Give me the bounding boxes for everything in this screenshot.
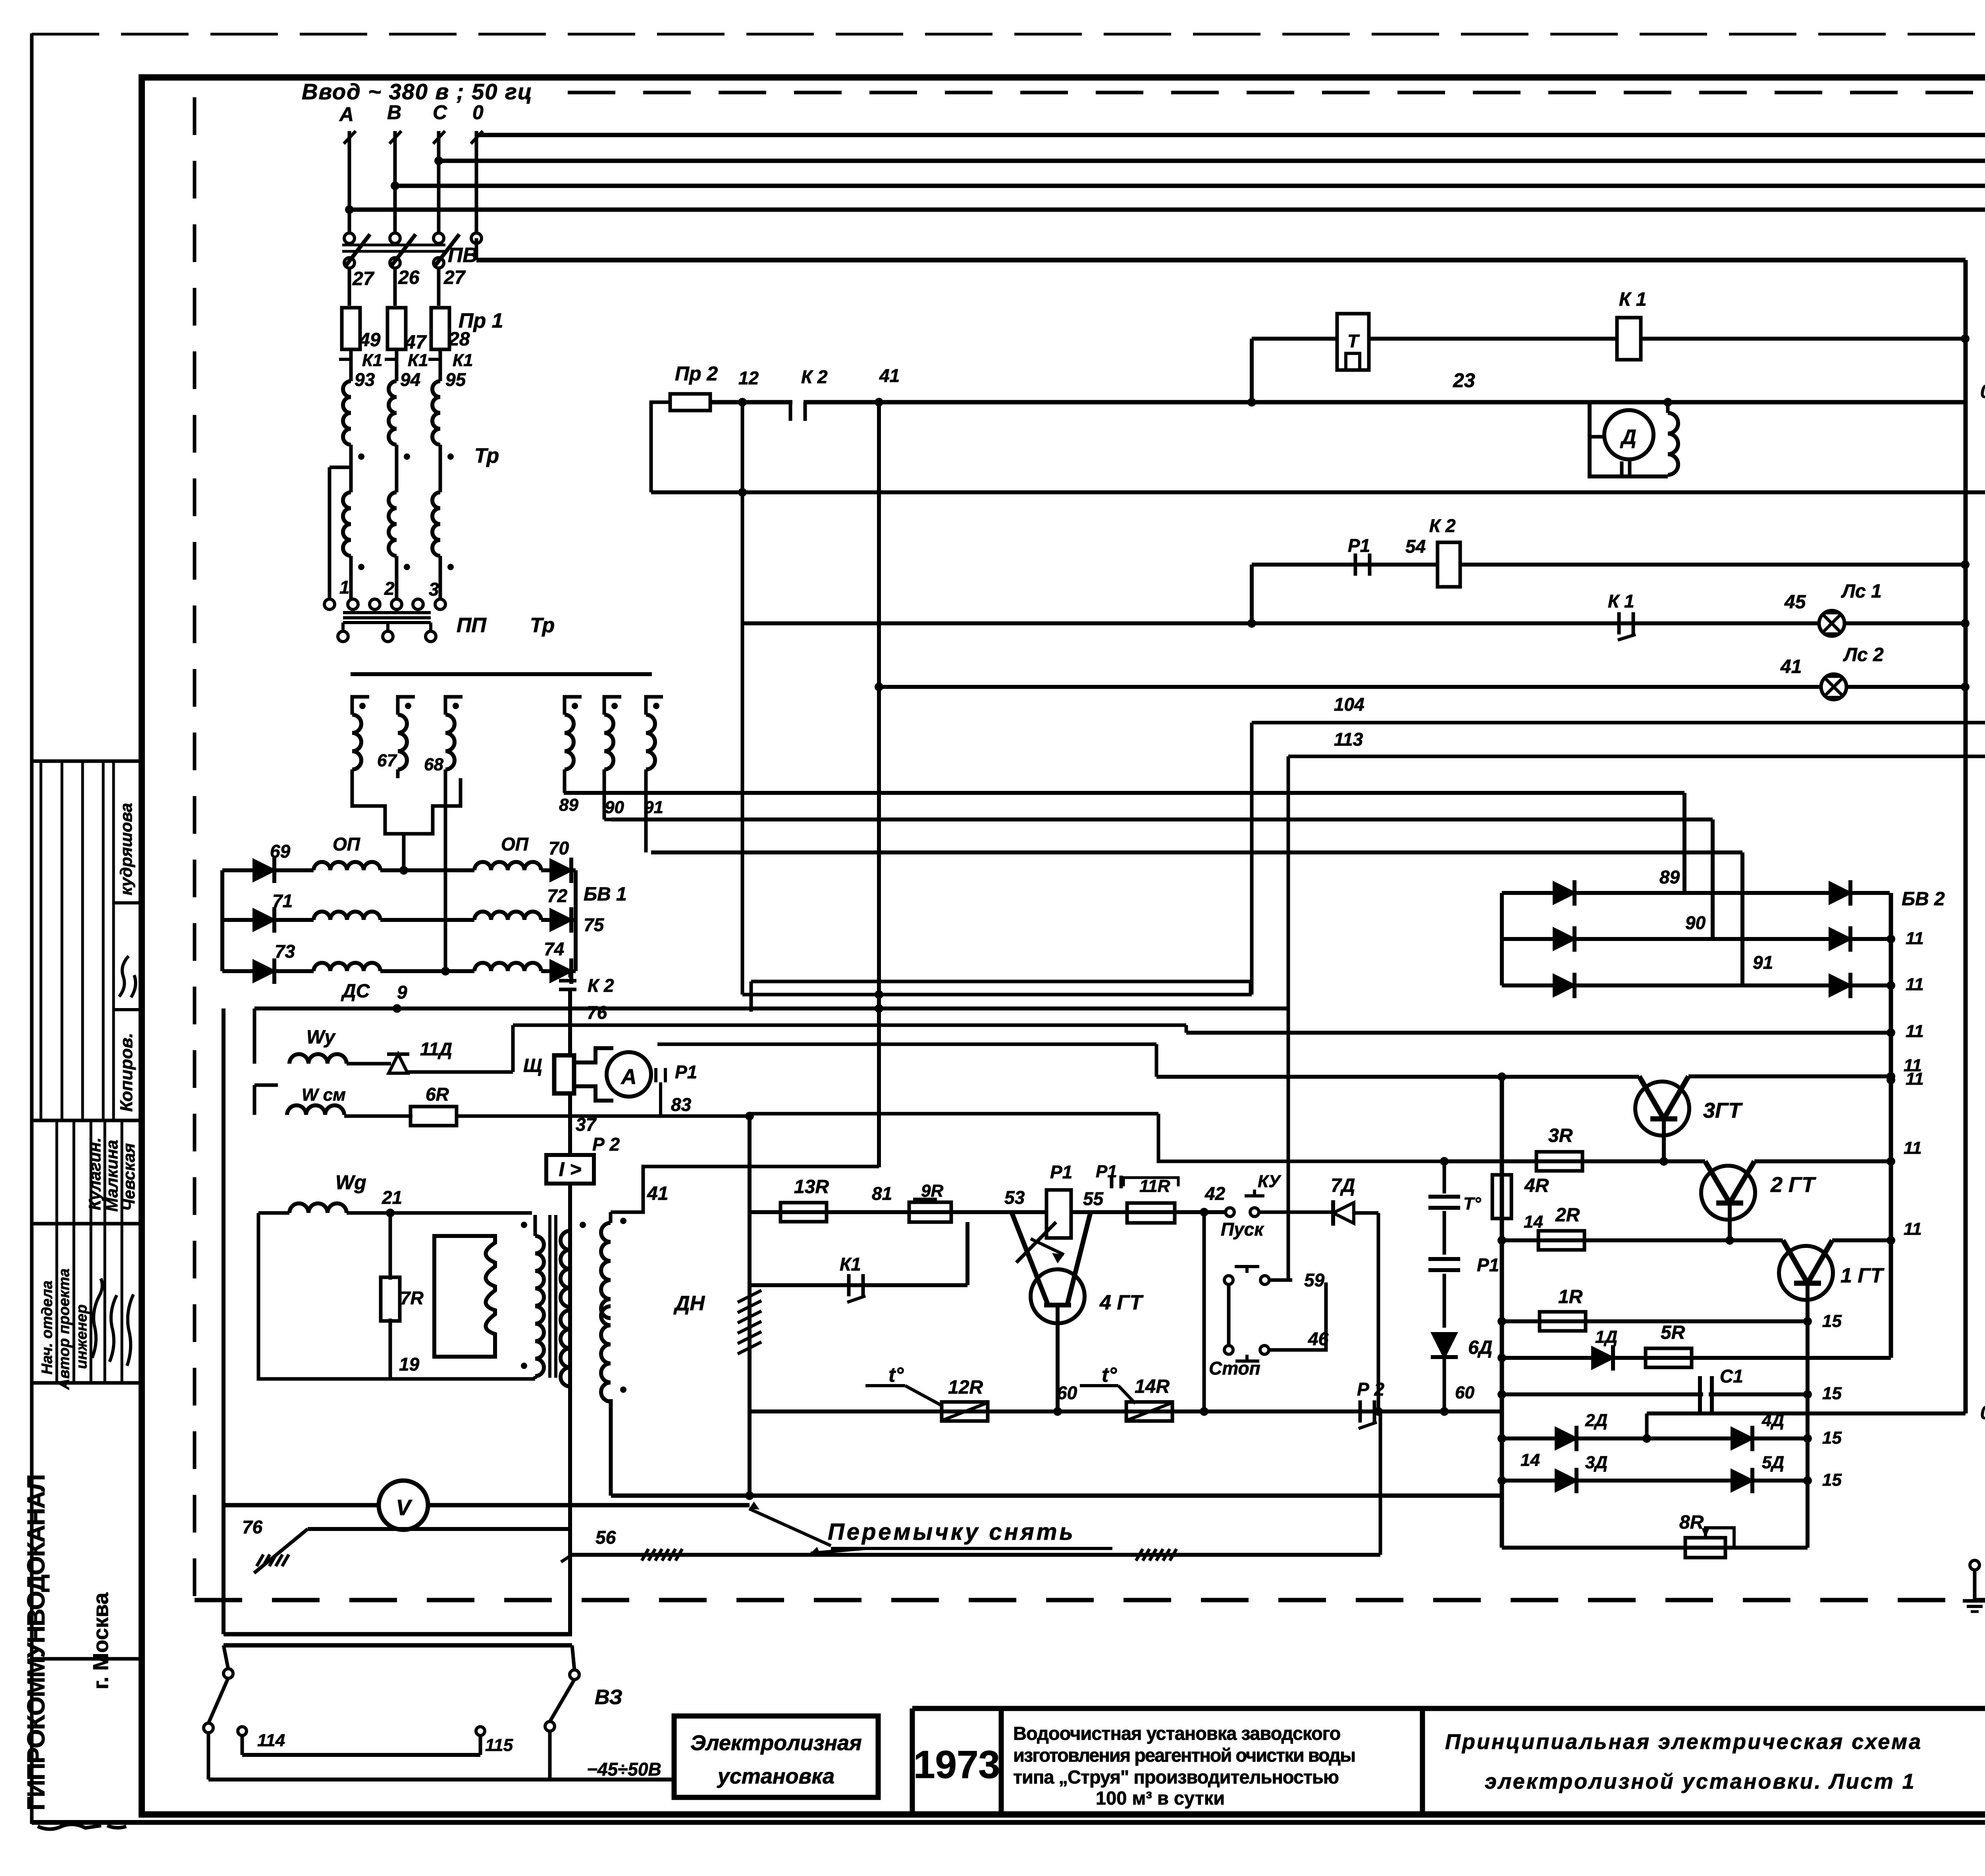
svg-text:Принципиальная электрическая: Принципиальная электрическая схема	[1445, 1730, 1922, 1754]
svg-text:74: 74	[544, 939, 564, 959]
svg-text:11: 11	[1906, 929, 1924, 948]
svg-text:26: 26	[398, 267, 420, 288]
svg-text:Нач. отдела: Нач. отдела	[39, 1280, 56, 1375]
svg-text:100 м³ в сутки: 100 м³ в сутки	[1096, 1787, 1225, 1809]
svg-text:4R: 4R	[1524, 1175, 1549, 1196]
svg-text:115: 115	[485, 1735, 513, 1755]
svg-text:114: 114	[257, 1731, 285, 1750]
svg-text:3: 3	[429, 579, 439, 600]
svg-text:14R: 14R	[1135, 1376, 1170, 1397]
svg-text:Т°: Т°	[1463, 1194, 1481, 1213]
svg-text:ГИПРОКОММУНВОДОКАНАЛ: ГИПРОКОММУНВОДОКАНАЛ	[23, 1475, 50, 1810]
svg-text:59: 59	[1304, 1270, 1325, 1290]
svg-text:45: 45	[1784, 592, 1806, 613]
svg-text:73: 73	[275, 941, 295, 962]
svg-text:2: 2	[384, 578, 395, 599]
svg-text:Копиров.: Копиров.	[117, 1033, 136, 1112]
svg-text:I >: I >	[559, 1158, 582, 1180]
svg-text:89: 89	[1659, 867, 1680, 887]
svg-text:27: 27	[443, 267, 466, 288]
svg-text:81: 81	[872, 1183, 892, 1204]
svg-text:1: 1	[339, 577, 350, 598]
svg-text:Стоп: Стоп	[1209, 1358, 1260, 1379]
svg-text:2Д: 2Д	[1585, 1411, 1607, 1430]
svg-text:ОП: ОП	[333, 834, 360, 854]
svg-text:изготовления реагентной очистк: изготовления реагентной очистки воды	[1013, 1745, 1355, 1766]
svg-text:55: 55	[1083, 1188, 1104, 1209]
svg-text:72: 72	[547, 885, 568, 906]
svg-text:91: 91	[644, 798, 663, 817]
svg-text:Электролизная: Электролизная	[690, 1731, 862, 1755]
svg-text:11: 11	[1904, 1138, 1922, 1158]
svg-text:14: 14	[1521, 1450, 1540, 1470]
svg-text:К1: К1	[453, 351, 473, 370]
svg-text:76: 76	[587, 1002, 607, 1023]
svg-text:1973: 1973	[913, 1743, 1000, 1786]
svg-text:11: 11	[1906, 1022, 1924, 1041]
svg-text:11: 11	[1906, 975, 1924, 994]
svg-text:11R: 11R	[1139, 1176, 1170, 1196]
svg-text:11: 11	[1904, 1056, 1922, 1075]
svg-text:ДС: ДС	[341, 981, 370, 1002]
svg-text:Тр: Тр	[474, 444, 499, 467]
svg-text:Р1: Р1	[1096, 1162, 1117, 1181]
svg-text:W см: W см	[302, 1085, 346, 1105]
svg-text:70: 70	[549, 838, 569, 858]
svg-text:41: 41	[879, 365, 900, 386]
svg-text:t°: t°	[888, 1363, 904, 1386]
svg-text:К 2: К 2	[801, 366, 828, 387]
svg-text:28: 28	[448, 329, 470, 350]
svg-text:Р 2: Р 2	[1357, 1379, 1384, 1400]
svg-text:ПВ: ПВ	[448, 244, 478, 267]
svg-text:Водоочистная установка заводск: Водоочистная установка заводского	[1013, 1723, 1340, 1744]
svg-text:21: 21	[382, 1187, 402, 1208]
svg-text:Р1: Р1	[675, 1062, 697, 1082]
svg-text:Д: Д	[1620, 426, 1636, 449]
svg-text:11Д: 11Д	[420, 1039, 452, 1059]
svg-text:К 2: К 2	[588, 975, 614, 996]
svg-text:90: 90	[1685, 912, 1706, 933]
svg-text:68: 68	[424, 755, 443, 774]
svg-text:Щ: Щ	[523, 1055, 542, 1076]
svg-text:0: 0	[1980, 1402, 1985, 1423]
svg-text:54: 54	[1405, 536, 1426, 557]
svg-text:13R: 13R	[794, 1176, 829, 1197]
svg-text:42: 42	[1204, 1183, 1226, 1204]
svg-text:60: 60	[1455, 1383, 1474, 1402]
svg-text:Wу: Wу	[306, 1027, 336, 1048]
svg-text:Р1: Р1	[1477, 1255, 1499, 1275]
svg-text:27: 27	[352, 268, 375, 289]
svg-text:56: 56	[595, 1527, 616, 1548]
svg-text:ОП: ОП	[501, 834, 529, 854]
svg-text:Чевская: Чевская	[119, 1143, 138, 1211]
svg-text:Ввод ~ 380 в ; 50 гц: Ввод ~ 380 в ; 50 гц	[302, 79, 533, 104]
svg-text:С1: С1	[1720, 1366, 1743, 1386]
svg-text:V: V	[396, 1495, 412, 1520]
svg-text:кудряшова: кудряшова	[117, 803, 135, 895]
svg-text:53: 53	[1004, 1187, 1025, 1208]
svg-text:ДН: ДН	[673, 1292, 705, 1315]
svg-text:2R: 2R	[1555, 1205, 1580, 1226]
svg-text:12: 12	[738, 368, 759, 388]
svg-text:Кулагин.: Кулагин.	[85, 1138, 104, 1210]
svg-text:104: 104	[1334, 694, 1364, 715]
svg-text:Р 2: Р 2	[592, 1134, 620, 1155]
svg-text:Тр: Тр	[530, 614, 555, 637]
svg-text:Пуск: Пуск	[1221, 1219, 1264, 1240]
svg-text:47: 47	[405, 332, 427, 353]
svg-text:−45÷50В: −45÷50В	[587, 1759, 661, 1780]
svg-text:К 1: К 1	[1608, 591, 1634, 611]
svg-text:В: В	[387, 101, 401, 123]
svg-text:11: 11	[1904, 1219, 1922, 1239]
svg-text:ВЗ: ВЗ	[595, 1686, 622, 1709]
svg-text:г. Москва: г. Москва	[89, 1592, 113, 1689]
svg-text:37: 37	[576, 1114, 597, 1135]
svg-text:БВ 1: БВ 1	[584, 884, 627, 905]
svg-text:4 ГТ: 4 ГТ	[1099, 1291, 1144, 1314]
svg-text:ПП: ПП	[457, 614, 487, 637]
svg-text:типа „Струя" производительност: типа „Струя" производительностью	[1013, 1766, 1339, 1787]
svg-text:6Д: 6Д	[1468, 1337, 1492, 1358]
svg-text:Малкина: Малкина	[102, 1140, 121, 1212]
svg-text:5Д: 5Д	[1762, 1453, 1784, 1472]
svg-text:Лс 2: Лс 2	[1843, 644, 1884, 665]
svg-text:15: 15	[1822, 1428, 1842, 1448]
svg-text:Перемычку снять: Перемычку снять	[828, 1519, 1075, 1545]
svg-text:КУ: КУ	[1258, 1172, 1282, 1191]
svg-text:А: А	[339, 103, 354, 125]
svg-text:инженер: инженер	[73, 1304, 90, 1369]
svg-text:К1: К1	[840, 1254, 861, 1274]
svg-text:установка: установка	[717, 1764, 834, 1788]
svg-text:71: 71	[272, 891, 293, 911]
svg-text:94: 94	[400, 369, 420, 390]
svg-text:электролизной установки. Л: электролизной установки. Лист 1	[1485, 1770, 1916, 1793]
svg-text:60: 60	[1057, 1382, 1077, 1403]
svg-text:t°: t°	[1102, 1363, 1117, 1386]
svg-text:15: 15	[1822, 1384, 1842, 1403]
svg-text:14: 14	[1524, 1212, 1543, 1232]
svg-text:90: 90	[605, 798, 624, 817]
svg-text:К 1: К 1	[1619, 289, 1647, 310]
svg-text:9: 9	[397, 982, 407, 1003]
svg-text:19: 19	[399, 1354, 420, 1375]
svg-text:41: 41	[647, 1183, 668, 1204]
svg-text:1R: 1R	[1558, 1286, 1583, 1307]
svg-text:А: А	[621, 1065, 637, 1089]
svg-text:83: 83	[671, 1094, 692, 1115]
svg-text:15: 15	[1822, 1470, 1842, 1490]
svg-text:К1: К1	[408, 351, 428, 370]
svg-text:Лс 1: Лс 1	[1841, 581, 1882, 602]
svg-text:0: 0	[472, 101, 484, 123]
svg-text:3ГТ: 3ГТ	[1703, 1099, 1743, 1122]
svg-text:49: 49	[359, 330, 381, 351]
svg-text:2 ГТ: 2 ГТ	[1770, 1173, 1816, 1197]
svg-text:113: 113	[1334, 729, 1363, 750]
svg-text:Т: Т	[1347, 331, 1360, 351]
svg-text:Wg: Wg	[335, 1171, 366, 1193]
svg-text:12R: 12R	[948, 1377, 983, 1398]
svg-text:23: 23	[1453, 369, 1475, 391]
svg-text:93: 93	[355, 369, 375, 390]
svg-text:1Д: 1Д	[1595, 1327, 1617, 1347]
svg-text:15: 15	[1822, 1311, 1842, 1331]
svg-text:4Д: 4Д	[1761, 1411, 1784, 1430]
svg-text:С: С	[433, 101, 447, 123]
svg-text:Р1: Р1	[1348, 535, 1370, 556]
svg-text:41: 41	[1780, 656, 1802, 677]
svg-text:Пр 2: Пр 2	[675, 362, 718, 385]
svg-text:К1: К1	[362, 351, 383, 370]
svg-text:75: 75	[584, 914, 605, 935]
svg-text:3Д: 3Д	[1585, 1453, 1607, 1472]
svg-text:0: 0	[1980, 381, 1985, 402]
svg-text:К 2: К 2	[1429, 515, 1456, 536]
svg-text:67: 67	[377, 751, 397, 770]
svg-text:76: 76	[242, 1517, 263, 1537]
svg-text:7Д: 7Д	[1331, 1175, 1355, 1196]
svg-text:8R: 8R	[1679, 1512, 1704, 1533]
svg-text:95: 95	[445, 369, 466, 390]
svg-text:69: 69	[270, 841, 291, 862]
svg-text:Автор проекта: Автор проекта	[56, 1269, 73, 1390]
svg-text:1 ГТ: 1 ГТ	[1840, 1264, 1885, 1287]
svg-text:6R: 6R	[426, 1084, 449, 1105]
svg-text:89: 89	[559, 795, 578, 815]
svg-text:БВ 2: БВ 2	[1902, 889, 1945, 910]
svg-text:3R: 3R	[1548, 1125, 1573, 1146]
svg-text:7R: 7R	[400, 1288, 424, 1308]
svg-text:5R: 5R	[1661, 1322, 1685, 1343]
svg-text:91: 91	[1753, 952, 1773, 973]
svg-text:Р1: Р1	[1050, 1162, 1072, 1182]
